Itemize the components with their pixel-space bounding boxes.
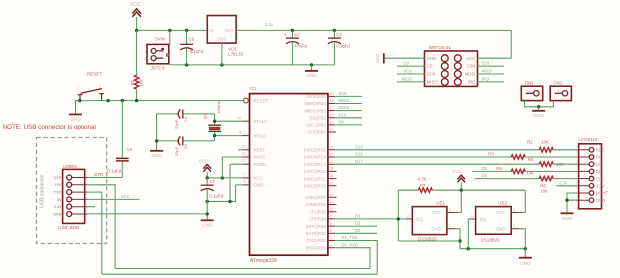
svg-text:(INT1)PD3: (INT1)PD3 xyxy=(306,224,327,229)
svg-text:VCC: VCC xyxy=(496,210,505,215)
svg-text:UE2: UE2 xyxy=(498,201,507,206)
wire NRF GND row xyxy=(385,57,425,59)
svg-text:GND: GND xyxy=(217,37,226,42)
wire NRF CE row (D9) xyxy=(397,65,425,67)
wire D4 net to UE1 DQ xyxy=(335,218,406,220)
svg-text:5VIN: 5VIN xyxy=(155,37,165,42)
svg-text:0.1uFd: 0.1uFd xyxy=(336,44,350,49)
wire serial net TXD bottom run xyxy=(102,273,377,275)
wire 3.3V stub xyxy=(87,206,95,208)
svg-text:3.3V: 3.3V xyxy=(54,205,62,209)
wire D1_TXD route to bottom xyxy=(335,241,377,275)
wire ON1/ON2 to ground xyxy=(525,101,554,107)
svg-text:(ICP)PB0: (ICP)PB0 xyxy=(308,130,326,135)
svg-text:GND: GND xyxy=(427,56,436,61)
crystal Q1 16MHz xyxy=(202,101,221,141)
svg-text:6: 6 xyxy=(330,215,332,219)
svg-text:MOSI: MOSI xyxy=(339,105,350,110)
junction at 169.8,30.4 xyxy=(168,29,171,32)
svg-text:OUT: OUT xyxy=(225,28,234,33)
wire XTAL1 net xyxy=(215,135,243,137)
svg-text:10K: 10K xyxy=(139,79,144,87)
svg-text:(T0)PD4: (T0)PD4 xyxy=(310,217,326,222)
svg-text:(ADC2)PC2: (ADC2)PC2 xyxy=(304,169,327,174)
wire NRF VCC row from 3.3V rail xyxy=(478,57,512,59)
svg-text:20: 20 xyxy=(242,152,246,156)
junction at 567,200.2 xyxy=(565,199,568,202)
wire 5V top rail (left of VD1) xyxy=(137,29,208,31)
wire ground bus under power section xyxy=(170,64,335,66)
wire DTR row xyxy=(87,177,122,179)
svg-text:13: 13 xyxy=(330,193,334,197)
wire D19 net (to LCD RES row) xyxy=(335,149,539,151)
regulator VD1 L78L33 xyxy=(207,16,243,57)
capacitor C8 0.1uFd (DTR coupling) xyxy=(108,101,133,178)
junction at 461.3,190.2 xyxy=(460,189,463,192)
svg-text:3: 3 xyxy=(330,236,332,240)
svg-text:16: 16 xyxy=(330,113,334,117)
svg-text:(T1)PD5: (T1)PD5 xyxy=(310,209,326,214)
svg-text:DQ: DQ xyxy=(416,217,423,222)
svg-text:(ADC4)PC4: (ADC4)PC4 xyxy=(304,155,327,160)
sensor UE1 DS18B20 xyxy=(406,201,455,242)
svg-text:C8: C8 xyxy=(126,147,132,152)
wire DQ-to-gnd link row xyxy=(398,240,460,242)
svg-text:GND: GND xyxy=(151,153,162,158)
resistor R4 10K (D/C row) xyxy=(528,157,564,167)
svg-text:DTR: DTR xyxy=(54,176,62,180)
svg-text:D9: D9 xyxy=(404,61,410,66)
svg-text:D3: D3 xyxy=(355,221,361,226)
pushbutton S1 RESET xyxy=(77,71,104,100)
wire R6 to LCD CLK xyxy=(553,178,578,180)
svg-text:(ADC3)PC3: (ADC3)PC3 xyxy=(304,162,327,167)
wire SPI net stubs with labels xyxy=(335,91,362,125)
svg-text:(MISO)PB4: (MISO)PB4 xyxy=(304,101,326,106)
svg-text:SCK: SCK xyxy=(339,91,348,96)
svg-text:19: 19 xyxy=(330,92,334,96)
svg-text:4.7K: 4.7K xyxy=(418,176,427,181)
svg-text:LCD5110: LCD5110 xyxy=(578,137,598,142)
svg-text:D10: D10 xyxy=(482,61,490,66)
svg-text:(SCK)PB5: (SCK)PB5 xyxy=(306,94,326,99)
svg-text:MOSI: MOSI xyxy=(482,69,493,74)
right side pins group PB xyxy=(304,92,336,135)
junction at 186.6,64.9 xyxy=(185,63,188,66)
wire RESET net xyxy=(76,100,244,102)
ground symbol (rotated) at NRF xyxy=(375,53,384,63)
svg-text:AVCC: AVCC xyxy=(254,155,266,160)
svg-text:16MHz: 16MHz xyxy=(216,101,221,114)
wire 3.3V rail (VD1 out to NRF riser) xyxy=(236,30,511,58)
wire D5 stub into R5 (DIN row) xyxy=(472,170,511,172)
right side pins group PD xyxy=(306,193,337,251)
junction at 214.6,135.6 xyxy=(213,134,216,137)
wire AVCC riser xyxy=(222,157,242,178)
svg-text:USB connector: USB connector xyxy=(40,174,46,208)
svg-text:3: 3 xyxy=(513,208,515,212)
svg-text:28: 28 xyxy=(330,145,334,149)
pin 10 XTAL2 xyxy=(237,116,267,124)
wire D18 net (to LCD CE row) xyxy=(335,156,511,158)
svg-text:R5: R5 xyxy=(496,166,502,171)
svg-text:GND: GND xyxy=(202,223,213,228)
svg-text:C2: C2 xyxy=(183,143,188,149)
svg-text:1: 1 xyxy=(557,89,559,93)
svg-text:VCC: VCC xyxy=(130,2,141,8)
svg-text:14: 14 xyxy=(330,128,334,132)
svg-text:UE1: UE1 xyxy=(436,201,445,206)
svg-text:27: 27 xyxy=(330,153,334,157)
svg-text:0.1uFd: 0.1uFd xyxy=(190,49,204,54)
svg-text:NOTE: USB connector is optiona: NOTE: USB connector is optional xyxy=(3,124,96,131)
svg-text:C1: C1 xyxy=(183,116,188,122)
svg-text:(TXD)PD1: (TXD)PD1 xyxy=(306,238,326,243)
svg-text:D2: D2 xyxy=(355,228,361,233)
capacitor C3 0.1uFd xyxy=(328,30,351,65)
svg-text:(AIN1)PD7: (AIN1)PD7 xyxy=(306,195,327,200)
svg-text:21: 21 xyxy=(242,145,246,149)
usb optional dashed enclosure xyxy=(37,138,107,244)
svg-text:3.3v: 3.3v xyxy=(265,22,274,27)
svg-text:CE: CE xyxy=(427,64,433,69)
wire AGND route xyxy=(230,164,243,201)
svg-text:ON2: ON2 xyxy=(553,81,563,86)
wire UE1 VCC riser xyxy=(455,190,462,212)
junction at 207.2,177.9 xyxy=(206,176,209,179)
wire VD1 gnd riser xyxy=(221,43,223,65)
wire XTAL2 net xyxy=(215,120,243,122)
svg-text:R7: R7 xyxy=(420,183,426,188)
wire TXO row to bottom rail xyxy=(87,192,102,274)
svg-text:Q1: Q1 xyxy=(202,113,207,119)
module U2 NRF24L01 xyxy=(425,45,478,87)
wire AREF stub xyxy=(238,149,243,151)
svg-text:8: 8 xyxy=(244,180,246,184)
ground symbol under ON connectors xyxy=(532,107,545,118)
supply symbol VCC (mid) xyxy=(199,159,211,172)
wire NRF MOSI row xyxy=(478,73,505,75)
wire D2 stub xyxy=(335,232,377,234)
svg-text:0.1uFd: 0.1uFd xyxy=(209,194,223,199)
svg-text:XTAL1: XTAL1 xyxy=(254,133,268,138)
connector X1 5VIN JST2.0 xyxy=(144,37,169,71)
junction dots reset net xyxy=(78,99,81,102)
svg-text:VCC: VCC xyxy=(467,56,476,61)
svg-text:(SS)PB2: (SS)PB2 xyxy=(310,116,327,121)
wire 5V row with VCC label xyxy=(87,198,139,200)
svg-text:RESET: RESET xyxy=(87,71,103,76)
svg-text:3.3V: 3.3V xyxy=(596,184,605,189)
svg-text:C7: C7 xyxy=(209,179,215,184)
ground symbol under power bus xyxy=(305,65,318,78)
svg-text:IC1: IC1 xyxy=(249,86,257,91)
svg-text:1: 1 xyxy=(449,224,451,228)
supply symbol VCC (sensors) xyxy=(453,169,466,182)
svg-text:22: 22 xyxy=(242,159,246,163)
svg-text:1: 1 xyxy=(513,224,515,228)
pin 21 AREF xyxy=(242,145,266,153)
svg-text:USB(6): USB(6) xyxy=(63,164,78,169)
wire D6 stub into R6 (CLK row) xyxy=(475,178,540,180)
junction at 136.6,100.6 xyxy=(135,99,138,102)
junction at 398.3,218.9 xyxy=(397,217,400,220)
svg-text:VCC: VCC xyxy=(121,194,130,199)
svg-text:DTR: DTR xyxy=(94,172,103,177)
svg-text:(MOSI)PB3: (MOSI)PB3 xyxy=(304,108,326,113)
svg-text:GND: GND xyxy=(254,183,264,188)
svg-text:3.3v: 3.3v xyxy=(559,180,568,185)
wire LIGHT/GND rows to ground xyxy=(567,193,579,213)
svg-text:MISO: MISO xyxy=(427,80,438,85)
right side pins group PC xyxy=(304,145,337,188)
svg-text:D6: D6 xyxy=(482,173,488,178)
svg-text:D9: D9 xyxy=(339,120,345,125)
svg-text:MISO: MISO xyxy=(339,98,350,103)
svg-text:SCK: SCK xyxy=(404,69,413,74)
svg-text:12: 12 xyxy=(330,200,334,204)
svg-text:GND: GND xyxy=(596,198,605,203)
svg-text:1: 1 xyxy=(144,49,146,53)
svg-text:XTAL2: XTAL2 xyxy=(254,119,268,124)
svg-text:(ADC0)PC0: (ADC0)PC0 xyxy=(304,184,327,189)
svg-text:ON1: ON1 xyxy=(525,81,535,86)
svg-text:7: 7 xyxy=(244,173,246,177)
svg-text:TXO: TXO xyxy=(54,191,62,195)
svg-text:D4: D4 xyxy=(355,214,361,219)
connector ON2 xyxy=(550,81,571,101)
svg-text:24: 24 xyxy=(330,174,334,178)
wire R3 to LCD CE xyxy=(525,156,578,158)
svg-text:IN: IN xyxy=(210,28,214,33)
svg-text:ATmega328: ATmega328 xyxy=(250,258,277,264)
resistor R3 (CE row) xyxy=(488,151,525,159)
svg-text:DS18B20: DS18B20 xyxy=(481,237,500,242)
junction at 292.4,30.4 xyxy=(291,29,294,32)
svg-text:3: 3 xyxy=(449,208,451,212)
svg-text:DIN: DIN xyxy=(596,169,603,174)
svg-text:D17: D17 xyxy=(355,159,363,164)
svg-text:2: 2 xyxy=(99,84,101,88)
svg-text:22pF: 22pF xyxy=(174,119,179,129)
resistor R6 10K (CLK row) xyxy=(539,176,553,193)
svg-text:GND: GND xyxy=(562,216,573,221)
svg-text:18: 18 xyxy=(330,99,334,103)
svg-text:23: 23 xyxy=(330,181,334,185)
capacitor C1 22pF xyxy=(157,109,215,129)
svg-text:GND: GND xyxy=(431,227,440,232)
resistor R1 10K (reset pullup) xyxy=(130,30,144,100)
wire JST riser bottom xyxy=(169,64,171,65)
wire VCC stem to sensor rail xyxy=(460,182,462,190)
svg-text:RESET: RESET xyxy=(254,98,269,103)
ground symbol under caps xyxy=(150,151,163,158)
svg-text:R2: R2 xyxy=(527,139,533,144)
wire caps to ground leg xyxy=(156,114,158,150)
svg-text:47uFd: 47uFd xyxy=(294,44,307,49)
svg-text:CSN: CSN xyxy=(467,64,476,69)
svg-text:D19: D19 xyxy=(355,145,363,150)
ground symbol under reset switch xyxy=(69,101,82,122)
svg-text:(OC1)PB1: (OC1)PB1 xyxy=(306,123,326,128)
svg-text:R1: R1 xyxy=(130,79,135,85)
junction at 108.1,100.6 xyxy=(106,99,109,102)
connector ON1 xyxy=(521,81,542,101)
svg-text:NRF24L01: NRF24L01 xyxy=(429,45,452,50)
sensor UE2 DS18B20 xyxy=(469,201,519,243)
svg-text:4: 4 xyxy=(330,229,332,233)
svg-text:(ADC5)PC5: (ADC5)PC5 xyxy=(304,148,327,153)
junction at 311.5,64.9 xyxy=(310,63,313,66)
svg-text:R4: R4 xyxy=(528,157,534,162)
resistor R7 4.7K xyxy=(418,176,433,192)
pin 22 AGND xyxy=(242,159,267,167)
svg-text:1: 1 xyxy=(77,86,79,90)
svg-text:C3: C3 xyxy=(336,32,342,37)
svg-text:D10: D10 xyxy=(339,112,347,117)
svg-text:IRQ: IRQ xyxy=(482,76,490,81)
ground symbol sensors xyxy=(519,258,532,266)
wire NRF SCK row xyxy=(397,73,425,75)
pin 8 GND xyxy=(243,180,264,188)
svg-text:VCC: VCC xyxy=(254,176,263,181)
ground symbol under LCD xyxy=(561,213,574,221)
resistor R5 (DIN row) xyxy=(496,166,534,176)
svg-text:VCC: VCC xyxy=(453,169,463,174)
wire NRF CSN row (D10) xyxy=(478,65,505,67)
svg-text:2: 2 xyxy=(471,214,473,218)
svg-text:(INT0)PD2: (INT0)PD2 xyxy=(306,231,327,236)
svg-text:IRQ: IRQ xyxy=(468,80,476,85)
junction at 538.7,106.8 xyxy=(537,105,540,108)
wire R2 to LCD RES xyxy=(553,149,578,151)
svg-text:15: 15 xyxy=(330,121,334,125)
pin 9 XTAL1 xyxy=(239,130,267,138)
resistor R2 10K (RES row) xyxy=(527,139,553,152)
wire NRF MISO row xyxy=(397,81,425,83)
svg-text:R3: R3 xyxy=(488,151,494,156)
connector USB_BOB (USB(6) breakout) xyxy=(53,164,87,230)
svg-text:GND: GND xyxy=(306,73,317,78)
wire USB GND row xyxy=(87,213,207,215)
supply symbol VCC (top) xyxy=(130,2,141,17)
svg-text:10: 10 xyxy=(237,116,241,120)
wire pin8 GND route xyxy=(236,185,243,202)
svg-text:USB_BOB: USB_BOB xyxy=(58,225,79,230)
svg-text:AGND: AGND xyxy=(254,162,267,167)
svg-text:1: 1 xyxy=(529,89,531,93)
svg-text:+: + xyxy=(284,32,287,37)
svg-text:GND: GND xyxy=(70,117,81,122)
svg-text:CLK: CLK xyxy=(596,176,604,181)
svg-text:VCC: VCC xyxy=(199,159,209,164)
capacitor C7 0.1uFd xyxy=(201,178,224,220)
junction at 207.2,213.9 xyxy=(206,212,209,215)
svg-text:C6: C6 xyxy=(189,36,195,41)
svg-text:25: 25 xyxy=(330,167,334,171)
svg-text:(AIN0)PD6: (AIN0)PD6 xyxy=(306,202,327,207)
svg-text:DQ: DQ xyxy=(480,217,487,222)
svg-text:C4: C4 xyxy=(294,32,300,37)
wire R5 to LCD DIN xyxy=(525,170,578,172)
svg-text:(RXD)PD0: (RXD)PD0 xyxy=(306,245,326,250)
wire sensor gnd bus xyxy=(460,248,525,250)
wire R4 to LCD D/C xyxy=(553,163,578,165)
svg-text:5V: 5V xyxy=(57,198,62,202)
pin 20 AVCC xyxy=(242,152,266,160)
junction dots on rails xyxy=(135,29,138,32)
junction at 222.3,177.9 xyxy=(221,176,224,179)
junction at 460,241 xyxy=(458,239,461,242)
svg-text:MOSI: MOSI xyxy=(465,72,476,77)
svg-text:JST2.0: JST2.0 xyxy=(151,66,165,71)
svg-text:2: 2 xyxy=(330,243,332,247)
wire VCC stem to pin7 row xyxy=(207,172,242,178)
svg-text:10K: 10K xyxy=(541,139,549,144)
svg-text:CE: CE xyxy=(596,155,602,160)
junction at 122.3,100.6 xyxy=(121,99,124,102)
wire gnd collector row xyxy=(207,201,235,203)
svg-text:AREF: AREF xyxy=(254,148,266,153)
svg-text:SCK: SCK xyxy=(427,72,436,77)
svg-text:RES: RES xyxy=(596,148,605,153)
svg-text:GND: GND xyxy=(496,227,505,232)
connector LCD5110 xyxy=(578,137,608,209)
junction at 207.2,201.5 xyxy=(206,200,209,203)
svg-text:9: 9 xyxy=(239,130,241,134)
wire serial net RXD bottom run xyxy=(115,268,370,270)
svg-text:2: 2 xyxy=(144,57,146,61)
wire D17 net (to LCD D/C row) xyxy=(335,163,539,165)
junction at 221.9,64.9 xyxy=(220,63,223,66)
svg-text:MISO: MISO xyxy=(402,76,413,81)
svg-text:VCC: VCC xyxy=(432,210,441,215)
svg-text:LIGHT: LIGHT xyxy=(596,191,609,196)
svg-text:17: 17 xyxy=(330,106,334,110)
capacitor C2 22pF xyxy=(157,136,215,156)
wire UE2 GND route xyxy=(519,229,526,257)
junction at 230,201.5 xyxy=(228,200,231,203)
junction at 468.3,248.7 xyxy=(467,247,470,250)
op-amp: none; ic ATmega328 IC1 xyxy=(249,86,328,264)
wire D0_RXD route to bottom xyxy=(335,248,370,269)
svg-text:RXI: RXI xyxy=(55,183,61,187)
svg-text:0.1uFd: 0.1uFd xyxy=(108,169,122,174)
svg-text:D1_TXD: D1_TXD xyxy=(342,235,358,240)
pin 7 VCC xyxy=(243,173,263,181)
wire UE2 DQ drop xyxy=(468,219,469,249)
wire RXI row to bottom rail xyxy=(87,185,115,269)
pin 1 RESET with bubble xyxy=(244,96,269,104)
svg-text:GND: GND xyxy=(375,53,380,63)
svg-text:L78L33: L78L33 xyxy=(228,52,243,57)
wire D3 stub xyxy=(335,225,377,227)
wire 3.3v stub to LCD xyxy=(557,185,579,187)
wire NRF IRQ row xyxy=(478,81,505,83)
wire R7 riser to DQ net xyxy=(397,190,399,241)
wire UE1 GND route xyxy=(455,229,461,249)
capacitor C4 47uFd xyxy=(284,30,307,65)
svg-text:5: 5 xyxy=(330,222,332,226)
svg-text:(ADC1)PC1: (ADC1)PC1 xyxy=(304,176,327,181)
svg-text:22pF: 22pF xyxy=(174,146,179,156)
svg-text:2: 2 xyxy=(407,214,409,218)
svg-text:GND: GND xyxy=(53,212,62,216)
svg-text:GND: GND xyxy=(533,113,544,118)
junction at 156.6,140.9 xyxy=(155,139,158,142)
junction at 214.6,121.2 xyxy=(213,120,216,123)
junction at 334.4,30.4 xyxy=(333,29,336,32)
